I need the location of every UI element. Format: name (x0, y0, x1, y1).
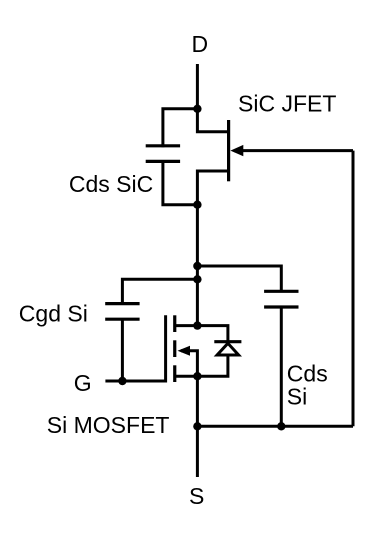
junction MOSFET drain node (193, 321, 201, 329)
svg-text:D: D (192, 31, 209, 57)
capacitor Cgd Si bottom plate (105, 318, 139, 321)
wire top to Cds SiC (163, 109, 198, 148)
svg-text:S: S (189, 483, 204, 509)
diode D1 cathode bar (214, 340, 241, 343)
transistor M1 channel segment middle (173, 340, 176, 357)
wire drain lead from D (196, 64, 199, 110)
junction node to Cds Si (193, 262, 201, 270)
wire right rail (gate to source tie) (352, 151, 355, 427)
wire Cds Si bottom lead (280, 307, 283, 426)
junction MOSFET source node (193, 372, 201, 380)
svg-text:G: G (74, 370, 92, 396)
transistor J1 gate wire (234, 149, 353, 152)
wire Cgd Si bottom lead (121, 319, 124, 381)
wire MOSFET source to bottom junction (196, 376, 199, 426)
transistor J1 source lead (197, 171, 228, 205)
transistor J1 channel bar (227, 120, 230, 181)
wire mid vertical JFET source to MOSFET drain (196, 205, 199, 326)
junction JFET source node (193, 201, 201, 209)
junction bottom right Cds Si node (277, 422, 285, 430)
svg-text:Si MOSFET: Si MOSFET (47, 412, 170, 438)
junction bottom source node (193, 422, 201, 430)
svg-text:Cgd Si: Cgd Si (19, 301, 88, 327)
svg-text:Cds SiC: Cds SiC (69, 171, 153, 197)
transistor J1 gate arrowhead (230, 145, 243, 156)
transistor M1 body lead (181, 351, 197, 376)
wire Cds SiC bottom lead (163, 161, 198, 204)
diode D1 triangle (217, 343, 239, 355)
transistor M1 source lead (175, 375, 198, 378)
svg-text:Si: Si (287, 383, 307, 409)
capacitor Cds SiC top plate (146, 144, 180, 147)
wire bottom rail (197, 425, 353, 428)
wire to Cgd Si cap (122, 279, 197, 303)
svg-text:SiC JFET: SiC JFET (238, 90, 336, 116)
capacitor Cds SiC bottom plate (146, 160, 180, 163)
wire diode bottom lead (197, 355, 228, 376)
capacitor Cds Si bottom plate (264, 305, 298, 308)
junction drain-cap node (193, 105, 201, 113)
junction Cgd-G node (118, 377, 126, 385)
transistor J1 drain lead (197, 107, 228, 132)
wire S lead (196, 426, 199, 477)
junction node to Cgd Si (193, 275, 201, 283)
wire diode top lead (197, 326, 228, 342)
wire G lead (105, 380, 165, 383)
wire to Cds Si cap (197, 266, 281, 291)
capacitor Cgd Si top plate (105, 302, 139, 305)
transistor M1 body arrowhead (178, 346, 191, 356)
transistor M1 drain lead (175, 324, 198, 327)
transistor M1 channel segment bottom (173, 365, 176, 382)
capacitor Cds Si top plate (264, 290, 298, 293)
transistor M1 gate bar (164, 315, 167, 382)
transistor M1 channel segment top (173, 315, 176, 332)
